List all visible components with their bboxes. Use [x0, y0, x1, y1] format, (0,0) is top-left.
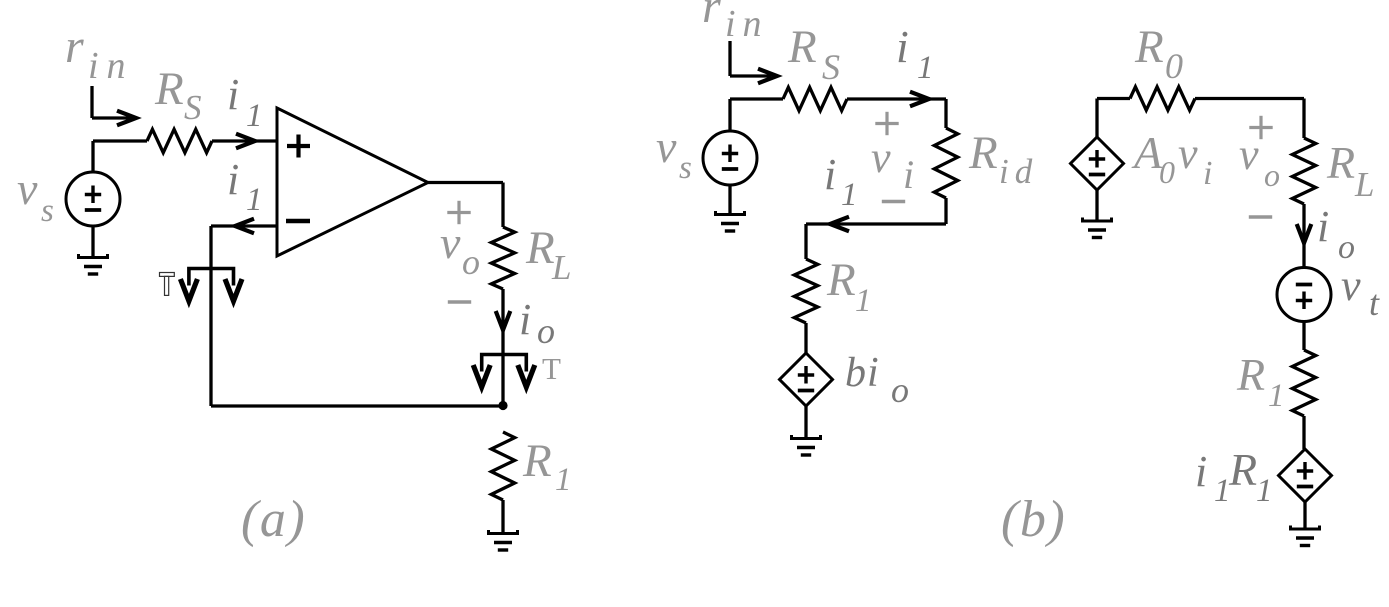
wire R1 to bio source (b) [804, 323, 807, 353]
wire i1R1 to ground (b) [1303, 502, 1306, 528]
svg-text:1: 1 [246, 182, 263, 218]
svg-text:i: i [1317, 202, 1329, 251]
label A0vi (b) [1131, 127, 1212, 192]
wire RL to node (a) [501, 289, 504, 406]
wire RS to op-amp plus-input (a) [212, 139, 277, 142]
wire R1 to ground (a) [501, 500, 504, 532]
label i1 top (b) [896, 21, 934, 86]
resistor R0 (b) [1130, 87, 1195, 110]
svg-text:id: id [999, 152, 1038, 191]
label r_in (a) [65, 20, 134, 87]
ground below i1R1 (b) [1291, 526, 1320, 546]
svg-text:r: r [65, 20, 84, 73]
label vo (b) [1239, 130, 1280, 193]
svg-text:v: v [871, 133, 891, 182]
r_in input-resistance arrow (b) [730, 41, 777, 83]
wire RS to Rid (b) [847, 99, 946, 128]
svg-text:i: i [867, 350, 879, 396]
svg-text:r: r [702, 0, 721, 33]
loop-break marker right (a) [473, 355, 535, 388]
svg-text:1: 1 [917, 50, 934, 86]
label i1R1 (b) [1195, 444, 1273, 509]
svg-text:S: S [184, 88, 202, 127]
source vt (b) [1277, 268, 1331, 322]
wire op-amp output (a) [428, 183, 503, 228]
label R1 mid (b) [826, 254, 872, 319]
resistor R1 mid (b) [794, 259, 817, 323]
label io (a) [519, 295, 555, 351]
label vt (b) [1341, 261, 1380, 323]
svg-text:v: v [17, 163, 38, 214]
resistor RS (b) [783, 87, 847, 110]
svg-text:v: v [656, 121, 677, 172]
svg-text:L: L [551, 248, 571, 287]
current arrow i1 plus-input (a) [236, 134, 255, 149]
wire R0 to A0vi source (b) [1095, 99, 1098, 138]
label RL (a) [525, 222, 571, 287]
label i1 lower (a) [227, 155, 263, 218]
label + of vo (a) [447, 201, 470, 224]
wire vs-bottom (a) [91, 226, 94, 256]
svg-text:o: o [891, 370, 909, 410]
dependent source bio (b) [780, 353, 833, 406]
svg-text:1: 1 [555, 462, 572, 498]
svg-text:i: i [227, 155, 239, 204]
wire R1 to i1R1 source (b) [1302, 416, 1305, 449]
svg-text:(b): (b) [1001, 491, 1066, 548]
svg-text:o: o [537, 311, 555, 351]
svg-text:S: S [822, 47, 840, 87]
wire R0 to RL (b) [1302, 99, 1305, 139]
svg-text:1: 1 [855, 283, 872, 319]
label - of vo (a) [448, 300, 471, 303]
svg-text:1: 1 [246, 98, 263, 134]
label bio (b) [845, 350, 909, 410]
current arrow i1 minus-input (a) [235, 219, 254, 234]
svg-text:0: 0 [1165, 46, 1183, 86]
resistor R1 (a) [491, 432, 514, 500]
op-amp U1 (a) [277, 108, 428, 256]
ground below A0vi (b) [1083, 218, 1112, 238]
svg-text:R: R [525, 222, 555, 274]
label RS (a) [154, 63, 202, 127]
current arrow i1 return (b) [830, 217, 849, 232]
svg-text:i: i [1203, 155, 1212, 192]
loop-break marker left (a) [180, 269, 242, 302]
svg-text:R: R [787, 21, 817, 73]
label vi (b) [871, 133, 914, 197]
label Rid (b) [968, 127, 1038, 191]
svg-text:i: i [896, 21, 909, 72]
label R1 (a) [522, 435, 572, 498]
wire R0 top (b) [1097, 97, 1304, 100]
ground below vs (a) [79, 254, 108, 274]
svg-text:b: b [845, 350, 866, 396]
svg-text:R: R [522, 435, 552, 487]
label vs (b) [656, 121, 692, 186]
svg-text:s: s [41, 193, 54, 229]
svg-text:o: o [1264, 157, 1280, 193]
label i1 top (a) [227, 70, 263, 134]
svg-text:v: v [440, 217, 461, 268]
svg-text:t: t [1369, 283, 1380, 323]
svg-text:R: R [1134, 21, 1164, 73]
wire minus-input feedback vertical (a) [211, 226, 277, 406]
svg-text:s: s [679, 150, 692, 186]
wire vs-top to RS (a) [93, 141, 147, 172]
label - of vo (b) [1249, 215, 1272, 218]
node junction dot (a) [498, 401, 507, 410]
resistor R1 right (b) [1292, 350, 1315, 416]
resistor RS (a) [147, 129, 212, 152]
label vs (a) [17, 163, 54, 229]
current arrow i1 (b) [910, 92, 929, 107]
label - of vi (b) [882, 200, 905, 203]
svg-text:R: R [154, 63, 184, 115]
label T at right break (a) [542, 351, 561, 386]
svg-text:i: i [824, 150, 836, 199]
svg-text:(a): (a) [241, 491, 306, 548]
svg-text:i: i [519, 295, 531, 344]
svg-text:i: i [903, 152, 914, 197]
svg-text:R: R [1228, 444, 1257, 495]
svg-text:i: i [1195, 447, 1207, 496]
label R0 (b) [1134, 21, 1183, 86]
dependent source A0vi (b) [1071, 137, 1124, 190]
label + of vo (b) [1249, 116, 1272, 139]
current arrow io (b) [1297, 224, 1312, 243]
svg-text:1: 1 [1268, 378, 1285, 414]
svg-text:R: R [1236, 349, 1265, 400]
svg-text:v: v [1178, 129, 1198, 178]
source vs (a) [66, 172, 120, 226]
label r_in (b) [702, 0, 769, 45]
wire A0vi to ground (b) [1095, 190, 1098, 220]
label RS (b) [787, 21, 840, 87]
svg-text:i: i [227, 70, 239, 119]
ground below vs (b) [716, 211, 745, 231]
wire Rid to R1 (b) [806, 198, 946, 259]
label (a) [241, 491, 306, 548]
label vo (a) [440, 217, 480, 282]
resistor RL (b) [1292, 138, 1315, 204]
wire vt to R1 (b) [1302, 322, 1305, 351]
svg-text:R: R [1326, 137, 1355, 188]
svg-text:T: T [542, 351, 561, 386]
svg-text:0: 0 [1159, 154, 1175, 190]
feedback wire bottom (a) [211, 404, 503, 407]
svg-text:v: v [1239, 130, 1259, 179]
current arrow io (a) [496, 311, 511, 330]
resistor Rid (b) [934, 128, 957, 198]
svg-text:in: in [88, 45, 134, 87]
svg-text:1: 1 [1256, 473, 1273, 509]
resistor RL (a) [491, 227, 514, 289]
r_in input-resistance arrow (a) [92, 86, 136, 125]
label io (b) [1317, 202, 1355, 266]
svg-text:R: R [826, 254, 856, 306]
label i1 mid (b) [824, 150, 858, 213]
dependent source i1R1 (b) [1279, 449, 1332, 502]
ground below bio (b) [792, 435, 821, 455]
wire RL to vt (b) [1302, 204, 1305, 268]
svg-text:1: 1 [841, 177, 858, 213]
svg-text:v: v [1341, 261, 1361, 310]
label T at left break (a) [160, 273, 175, 296]
source vs (b) [703, 131, 757, 185]
wire vs-top to RS (b) [730, 99, 783, 131]
wire bio to ground (b) [804, 406, 807, 437]
svg-text:R: R [968, 127, 998, 179]
svg-text:L: L [1354, 165, 1374, 204]
label (b) [1001, 491, 1066, 548]
label R1 right (b) [1236, 349, 1285, 414]
ground below R1 (a) [489, 530, 518, 550]
label RL (b) [1326, 137, 1374, 204]
svg-text:in: in [725, 3, 769, 45]
svg-text:o: o [462, 242, 480, 282]
wire vs-bottom (b) [728, 185, 731, 213]
label + of vi (b) [875, 112, 898, 135]
